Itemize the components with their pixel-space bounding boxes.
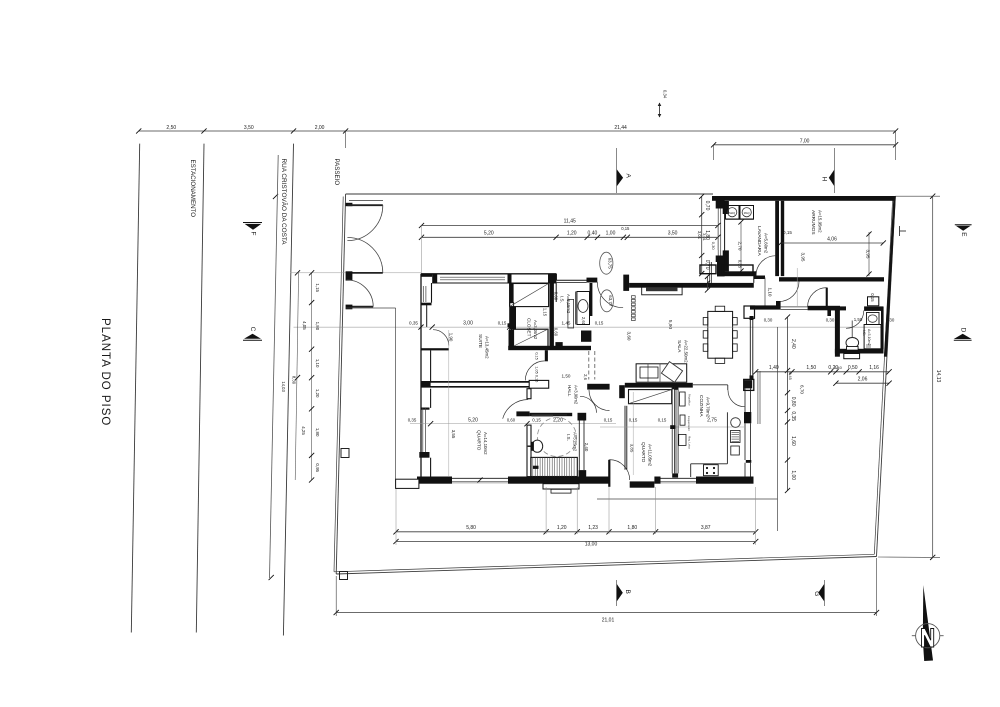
svg-text:3,87: 3,87	[701, 525, 711, 531]
wall step sala-ne	[754, 276, 766, 280]
patio east line	[777, 327, 779, 531]
door lavandaria opening	[755, 271, 757, 276]
gate pier top	[346, 203, 353, 206]
svg-text:0,15: 0,15	[498, 321, 507, 326]
svg-text:PASSEIO: PASSEIO	[333, 159, 340, 186]
svg-text:A=15,95m2: A=15,95m2	[818, 210, 823, 233]
svg-text:3,01: 3,01	[702, 233, 707, 242]
svg-text:QUARTO: QUARTO	[640, 442, 646, 463]
svg-text:4,05: 4,05	[302, 321, 307, 330]
svg-text:2,50: 2,50	[166, 125, 176, 131]
svg-text:2,06: 2,06	[858, 376, 868, 382]
door is2 arc	[846, 311, 864, 329]
is1 door block	[568, 299, 574, 328]
pier suite se	[509, 330, 514, 347]
witness 21,01 right	[876, 558, 878, 616]
section line G vertical	[824, 580, 826, 606]
svg-text:0,40: 0,40	[588, 230, 598, 236]
wall quarto1 east upper	[527, 389, 531, 399]
chairs left	[703, 318, 708, 325]
svg-text:0,80: 0,80	[790, 397, 796, 407]
svg-text:3,50: 3,50	[244, 125, 254, 131]
svg-text:2,30: 2,30	[886, 318, 895, 323]
svg-text:Esquentador: Esquentador	[687, 416, 691, 431]
svg-text:0,50: 0,50	[848, 365, 858, 371]
svg-text:A=3,90m2: A=3,90m2	[573, 385, 578, 405]
wall is1 west	[555, 283, 557, 302]
wall corridor north	[508, 346, 591, 350]
wall left window mullion	[421, 303, 427, 305]
washing machine 2	[740, 206, 754, 220]
svg-text:A: A	[624, 174, 631, 179]
svg-text:I.S.: I.S.	[560, 296, 565, 303]
svg-text:4,25: 4,25	[301, 426, 306, 435]
dim 2,70 lavandaria	[740, 222, 742, 271]
window left quarto1	[422, 408, 424, 452]
exterior back door arc	[609, 460, 629, 480]
door lavandaria arc	[756, 256, 776, 276]
svg-text:14,13: 14,13	[935, 370, 941, 383]
witness bottom mids	[545, 487, 547, 534]
svg-text:0,35: 0,35	[790, 411, 796, 421]
wall left inner upper	[431, 283, 433, 303]
thin edge corridor east	[764, 278, 766, 307]
is1 vanity	[577, 292, 590, 325]
gate arc upper	[347, 205, 382, 240]
is2 threshold	[844, 354, 860, 359]
svg-text:ARRUMOS: ARRUMOS	[810, 210, 816, 235]
section marker F	[243, 222, 262, 224]
wall arrumos east slanted	[884, 196, 896, 357]
divider top tick	[672, 386, 677, 390]
wall quarto1 east lower	[527, 425, 531, 477]
kitchen wall appliances	[680, 392, 686, 406]
dim line quarto1	[410, 423, 616, 425]
sala east glazing	[749, 316, 751, 379]
svg-text:LAVANDARIA: LAVANDARIA	[756, 226, 762, 256]
wall is2 north right	[864, 306, 883, 311]
chair bottom	[715, 358, 725, 363]
svg-text:1,80: 1,80	[315, 428, 320, 437]
yard wall inner line at gate	[349, 199, 383, 201]
wall is2 south	[835, 349, 884, 354]
chairs right	[733, 318, 738, 325]
bath vanity bar	[532, 414, 554, 416]
wall north closet caps	[508, 274, 512, 283]
svg-text:0,15: 0,15	[535, 375, 539, 382]
svg-text:0,15: 0,15	[658, 418, 667, 423]
door arrumos leaf	[796, 268, 798, 306]
wall bath east bottom cap	[579, 470, 587, 476]
svg-text:0,15: 0,15	[870, 293, 875, 302]
svg-text:5,80: 5,80	[466, 525, 476, 531]
svg-text:MAQ: MAQ	[744, 211, 750, 215]
wall is-bath north	[530, 413, 573, 416]
north arrow letter N	[922, 629, 934, 648]
wall lavandaria east	[775, 201, 779, 276]
dim 3,95 arrumos right	[868, 232, 870, 276]
wall bottom right of door	[630, 481, 655, 487]
wall quarto2-cozinha divider	[671, 387, 673, 474]
wall suite-closet north outer	[421, 273, 556, 275]
wall bottom	[417, 477, 609, 484]
is1 divider line	[575, 292, 577, 325]
door arrumos arc	[779, 282, 799, 302]
svg-text:QUARTO: QUARTO	[476, 430, 482, 451]
wall corridor south	[750, 305, 776, 309]
door suite-west arc	[433, 330, 449, 346]
svg-text:3,50: 3,50	[668, 230, 678, 236]
dim chain right-bottom	[756, 371, 889, 373]
svg-text:2,75: 2,75	[707, 418, 717, 424]
svg-text:0,15: 0,15	[783, 230, 792, 235]
wall entrance pier east	[623, 275, 629, 291]
svg-text:0,15: 0,15	[621, 226, 630, 231]
section line B vertical	[616, 580, 618, 606]
svg-text:0,34: 0,34	[663, 90, 668, 99]
is2 shower tray	[864, 325, 881, 349]
north arrow needle	[923, 585, 933, 661]
wall sala north	[629, 283, 754, 288]
dim line cozinha	[600, 426, 744, 428]
svg-text:A=14,10m2: A=14,10m2	[483, 432, 488, 455]
street line left edge estacionamento	[131, 144, 139, 633]
svg-text:A=5,60m2: A=5,60m2	[764, 233, 769, 254]
dim 1,80-0,30 right column	[707, 276, 709, 290]
svg-text:0,30: 0,30	[711, 242, 716, 251]
wall is2 east	[881, 307, 884, 349]
site boundary bottom double line	[336, 557, 876, 575]
svg-text:A=5,25m2: A=5,25m2	[572, 432, 577, 452]
wall terrace lower	[717, 262, 725, 276]
wall arrumos west	[781, 201, 784, 276]
closet mid pier	[510, 307, 516, 330]
wall lavandaria west	[723, 201, 729, 214]
wall bath east top cap	[578, 413, 587, 421]
svg-text:ESTACIONAMENTO: ESTACIONAMENTO	[189, 160, 196, 218]
armchair rotated	[661, 362, 682, 383]
svg-text:SALA: SALA	[676, 340, 682, 353]
wall arrumos north	[712, 196, 894, 201]
wall lavandaria-arrumos south	[718, 271, 757, 276]
facade chain line C	[295, 273, 298, 480]
wall quarto2 west thin	[624, 406, 626, 470]
north arrow circle	[916, 624, 940, 648]
wall entrance pier west	[587, 278, 598, 283]
svg-text:5,90: 5,90	[667, 320, 673, 330]
svg-text:8,30: 8,30	[292, 376, 297, 385]
section marker G	[818, 584, 824, 601]
svg-text:A=3,10m2: A=3,10m2	[867, 329, 871, 345]
svg-text:63,75: 63,75	[607, 258, 612, 270]
chair top	[715, 306, 725, 311]
svg-text:F: F	[250, 232, 257, 236]
door quarto1 arc	[503, 400, 529, 419]
facade chain C ticks	[295, 270, 300, 275]
dining table	[708, 311, 733, 358]
wall porch step	[555, 274, 557, 280]
niche window 2	[723, 265, 754, 274]
kitchen sink	[731, 418, 741, 428]
gate post on left boundary	[341, 449, 349, 458]
window suite west lines	[422, 286, 424, 302]
svg-text:0,95: 0,95	[315, 463, 320, 472]
bath shower hatch	[531, 457, 578, 476]
wall cozinha east	[744, 380, 752, 388]
patio bottom line	[597, 498, 778, 500]
is1 east wall black	[590, 283, 593, 316]
wall is2 west	[835, 310, 840, 357]
wall terrace top corner	[716, 197, 725, 209]
svg-text:I.S.: I.S.	[566, 434, 571, 441]
svg-text:1,10: 1,10	[768, 288, 773, 297]
svg-text:0,30: 0,30	[764, 318, 773, 323]
section line A vertical	[616, 148, 618, 193]
sofa	[636, 364, 687, 382]
svg-text:2,40: 2,40	[584, 443, 589, 452]
dimension 7,00 top right	[714, 144, 896, 146]
site boundary right double line	[877, 197, 896, 557]
svg-text:21,01: 21,01	[602, 618, 615, 624]
svg-text:A=11,05m2: A=11,05m2	[648, 444, 653, 467]
is1 basin	[578, 300, 588, 313]
svg-text:2,40: 2,40	[790, 339, 796, 349]
door backyard arc	[808, 288, 827, 307]
door vestibule arc	[589, 390, 610, 411]
svg-text:5,20: 5,20	[484, 230, 494, 236]
wall left inner quarto	[430, 389, 432, 408]
door bath arc	[580, 396, 597, 413]
door corridor-suite arc	[525, 361, 545, 381]
wall left inner below door	[430, 350, 432, 382]
wall is1 south pier	[555, 342, 562, 348]
svg-text:0,15: 0,15	[532, 418, 541, 423]
svg-text:0,40: 0,40	[834, 365, 843, 370]
site boundary top	[346, 193, 713, 195]
svg-text:3,01: 3,01	[697, 231, 702, 240]
wall left outer face	[420, 274, 422, 477]
level tag 63,77	[600, 290, 613, 312]
section marker H	[829, 170, 834, 186]
level tag 63,75	[600, 252, 613, 274]
witness line x345.6 top	[345, 131, 347, 148]
svg-text:A=9,70m2: A=9,70m2	[706, 397, 711, 418]
svg-text:1,50: 1,50	[806, 365, 816, 371]
svg-text:1,00: 1,00	[790, 470, 796, 480]
svg-text:63,77: 63,77	[608, 295, 613, 307]
niche window 1	[700, 265, 716, 274]
wall suite-quarto divider	[421, 381, 529, 383]
wall hall-quarto2	[587, 384, 609, 390]
quarto2 wardrobe	[629, 390, 672, 404]
pedestrian gate leaf	[347, 306, 374, 308]
svg-text:3,95: 3,95	[801, 253, 806, 262]
kitchen small square	[731, 446, 740, 455]
witness 21,01 left	[335, 576, 337, 616]
svg-text:A=3,46m2: A=3,46m2	[533, 320, 538, 340]
facade witness top	[291, 272, 422, 274]
kitchen counter right	[726, 412, 728, 464]
dimension 21,01 bottom	[336, 612, 876, 614]
wall corridor-yard box	[744, 306, 755, 318]
section marker A	[617, 169, 623, 186]
plinth bottom-left	[396, 479, 419, 488]
marker T lot	[899, 226, 901, 236]
gate arc lower	[347, 238, 382, 273]
window bottom quarto1	[452, 477, 508, 484]
svg-text:1,10: 1,10	[315, 359, 320, 368]
gate pier bottom	[346, 305, 353, 310]
svg-text:0,60: 0,60	[507, 418, 516, 423]
svg-text:E: E	[960, 232, 967, 237]
svg-text:1,20: 1,20	[557, 525, 567, 531]
svg-text:C: C	[249, 327, 256, 332]
section marker D	[954, 339, 972, 341]
pier quarto2 nw	[619, 385, 625, 398]
radiator squares column	[632, 296, 636, 299]
section line H vertical	[834, 148, 836, 193]
is2 toilet	[846, 338, 859, 348]
svg-text:11,45: 11,45	[564, 219, 576, 225]
street line rua extra	[270, 155, 279, 578]
witness line x713.6	[713, 145, 715, 160]
dimension 14,13 right	[932, 196, 934, 557]
section marker B	[617, 584, 623, 601]
wall bath east lines	[578, 421, 580, 471]
svg-text:1,80: 1,80	[315, 322, 320, 331]
svg-text:0,30: 0,30	[826, 318, 835, 323]
washing machine 1	[726, 206, 740, 220]
witness bottom right	[755, 487, 757, 545]
is2 basin	[867, 313, 880, 325]
svg-text:0,60: 0,60	[554, 328, 559, 337]
dim line sala horizontal	[294, 326, 882, 328]
window is2 north	[868, 297, 879, 306]
svg-text:Frigorifico: Frigorifico	[688, 394, 692, 406]
svg-text:PLANTA DO PISO: PLANTA DO PISO	[99, 318, 111, 426]
svg-text:21,44: 21,44	[614, 125, 627, 131]
patio steps pair	[757, 371, 759, 424]
svg-text:1,90: 1,90	[449, 333, 454, 342]
svg-text:1,15: 1,15	[543, 308, 548, 317]
door backyard leaf	[826, 288, 828, 307]
witness line x895.6	[895, 131, 897, 160]
svg-text:0,15: 0,15	[629, 418, 638, 423]
svg-text:A=22,50m2: A=22,50m2	[684, 340, 689, 363]
wall terrace cap	[716, 256, 725, 263]
svg-text:0,15: 0,15	[604, 418, 613, 423]
lavandaria counter line	[726, 219, 754, 221]
dim 13,00 line	[396, 541, 756, 543]
window suite north lines	[440, 276, 505, 278]
closet wardrobe lower	[512, 329, 549, 347]
door cozinha arc	[728, 390, 745, 407]
dim 11,45 total	[422, 225, 718, 227]
pedestrian gate arc	[347, 280, 374, 307]
section marker C	[243, 339, 262, 341]
pier sala se	[744, 379, 754, 390]
wall left pier window sill	[421, 408, 430, 410]
street line rua/passeio	[283, 144, 293, 636]
door suite-west leaf	[421, 348, 449, 350]
svg-text:A=13,45m2: A=13,45m2	[485, 336, 490, 359]
kitchen stove	[704, 465, 719, 476]
svg-text:1,00: 1,00	[606, 230, 616, 236]
street line estacionamento/rua	[196, 144, 204, 633]
bath toilet	[532, 440, 543, 452]
svg-text:5,20: 5,20	[468, 418, 478, 424]
wall front recess thin	[556, 279, 586, 281]
svg-text:6,70: 6,70	[800, 385, 805, 394]
svg-text:1,40: 1,40	[769, 365, 779, 371]
dim 4,06 arrumos	[781, 242, 884, 244]
gate leaf lower	[347, 272, 382, 274]
svg-text:I.S.: I.S.	[862, 330, 866, 336]
svg-text:3,85: 3,85	[630, 444, 635, 453]
witness 14,13 bottom	[878, 556, 940, 558]
svg-text:2,70: 2,70	[738, 242, 743, 251]
svg-text:14,03: 14,03	[281, 381, 286, 392]
svg-text:7,00: 7,00	[800, 139, 810, 145]
svg-text:1,05: 1,05	[535, 366, 539, 373]
gate leaf upper	[347, 204, 382, 206]
svg-text:1,80: 1,80	[627, 525, 637, 531]
wall is2 corridor stub	[827, 306, 846, 310]
dim chain 11,45 segs	[422, 236, 718, 238]
wall left pier y303	[421, 303, 432, 306]
svg-text:1,16: 1,16	[869, 365, 879, 371]
porch walkway lines	[709, 262, 711, 283]
driveway lines	[346, 307, 396, 309]
closet wardrobe upper	[510, 284, 549, 307]
dim 3,95 arrumos left	[800, 247, 802, 267]
svg-text:G: G	[813, 591, 820, 596]
window terrace	[717, 209, 719, 256]
svg-text:2,00: 2,00	[315, 125, 325, 131]
site sw corner post	[340, 572, 348, 580]
dimension chain top 2,50 3,50 2,00 21,44	[139, 130, 896, 132]
dim chain front terrace	[701, 196, 703, 273]
junction block corridor	[529, 380, 549, 388]
wall suite-closet north inner	[432, 282, 556, 284]
svg-text:CLOSET: CLOSET	[527, 318, 532, 337]
backyard dim chain	[787, 317, 789, 491]
svg-text:0,35: 0,35	[409, 321, 418, 326]
svg-text:HALL: HALL	[567, 385, 572, 397]
svg-text:H: H	[821, 177, 828, 182]
svg-text:D: D	[960, 328, 967, 333]
svg-text:SUITE: SUITE	[477, 334, 483, 348]
radiator sala north	[642, 285, 682, 295]
hall dashed lines	[588, 351, 590, 380]
facade chain line D	[311, 273, 313, 480]
svg-text:1,15: 1,15	[315, 283, 320, 292]
wall closet-is1 divider	[550, 283, 554, 348]
svg-text:1,50: 1,50	[562, 374, 571, 379]
witness bottom left	[395, 487, 397, 545]
pier corridor	[545, 350, 548, 361]
gate pier mid	[346, 271, 353, 280]
svg-text:COZINHA: COZINHA	[698, 395, 704, 417]
section marker E	[955, 224, 972, 226]
svg-text:0,15: 0,15	[595, 321, 604, 326]
svg-text:0,70: 0,70	[704, 201, 710, 211]
site boundary left double line	[336, 194, 345, 574]
svg-text:RUA CRISTOVÃO DA COSTA: RUA CRISTOVÃO DA COSTA	[280, 159, 289, 246]
svg-text:1,60: 1,60	[790, 436, 796, 446]
svg-text:MAQ: MAQ	[729, 211, 735, 215]
svg-text:13,00: 13,00	[585, 542, 598, 548]
